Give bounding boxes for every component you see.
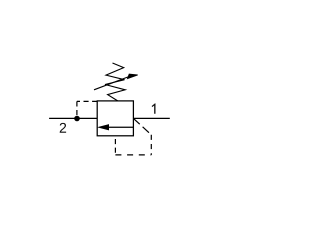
valve body box: [97, 101, 133, 136]
arrow: flow arrow inside valve body pointing left: [99, 125, 134, 130]
wire: dashed drain line, bottom horizontal run: [115, 154, 151, 156]
wire: left flow line (port 2): [49, 117, 97, 119]
wire: right flow line (port 1): [133, 117, 169, 119]
wire: dashed pilot line, vertical run from corner down to junction dot: [76, 101, 78, 118]
wire: dashed drain line, right vertical run: [150, 135, 152, 155]
wire: dashed pilot line, horizontal run from above dot to box left edge: [77, 100, 97, 102]
label: port 2: [60, 123, 66, 133]
label: port 1: [152, 103, 156, 113]
spring: adjustable spring zigzag above valve body: [105, 63, 125, 101]
wire: dashed drain line, vertical run up to box bottom: [114, 136, 116, 155]
node: junction dot on port 2 line: [74, 116, 80, 122]
wire: dashed drain line, diagonal from port 1 junction: [133, 118, 151, 134]
arrow: adjustment arrow through spring: [94, 74, 138, 90]
